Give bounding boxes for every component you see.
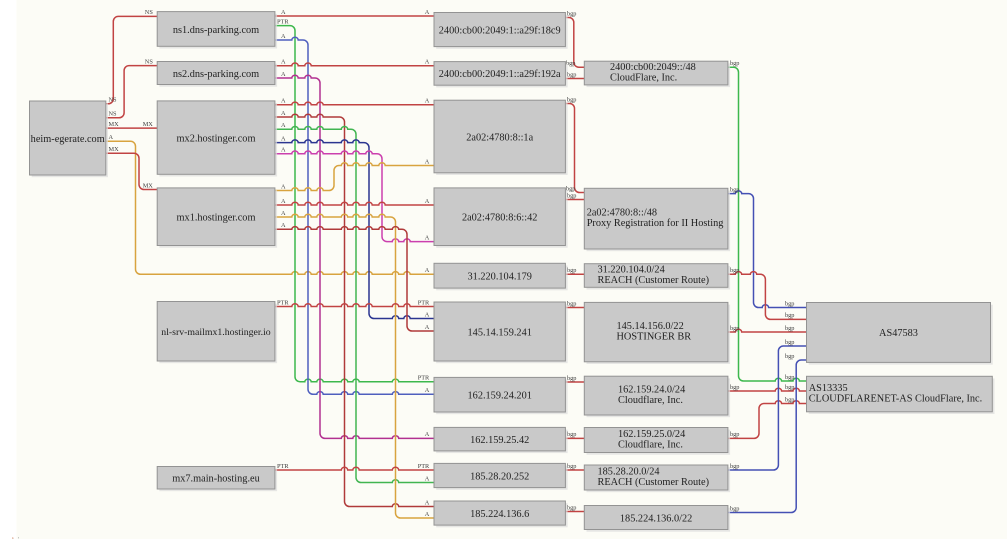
svg-text:A: A [281,71,286,78]
node 162.159.25.42 [434,427,568,453]
svg-text:A: A [281,33,286,40]
wire A mx1.hostinger.com to 185.224.136.6 [275,210,434,518]
svg-text:CloudFlare, Inc.: CloudFlare, Inc. [610,73,677,84]
svg-text:2400:cb00:2049::/48: 2400:cb00:2049::/48 [610,62,696,73]
node AS13335 CLOUDFLARENET-AS CloudFlare, Inc. [807,376,995,414]
corner watermark fragment [0,536,27,544]
svg-text:MX: MX [143,182,154,189]
svg-text:185.224.136.0/22: 185.224.136.0/22 [620,513,692,524]
node 145.14.156.0/22 HOSTINGER BR [584,302,730,364]
svg-text:ns1.dns-parking.com: ns1.dns-parking.com [173,25,259,36]
svg-text:bgp: bgp [567,375,576,382]
svg-text:A: A [281,59,286,66]
wire bgp 2a02:4780:8:6::42 to 2a02:4780:8::/48 [565,192,584,199]
svg-text:bgp: bgp [785,384,794,391]
wire bgp 162.159.24.0/24 to AS13335 [728,384,807,391]
wire bgp 185.224.136.0/22 to AS47583 [728,353,807,513]
node 185.224.136.0/22 [584,506,730,532]
wire PTR nl-srv-mailmx1.hostinger.io to 145.14.159.241 [275,299,434,306]
wire A ns1.dns-parking.com to 162.159.24.201 [275,33,434,395]
svg-text:A: A [425,511,430,518]
svg-text:bgp: bgp [567,431,576,438]
svg-text:bgp: bgp [730,505,739,512]
wire bgp 145.14.156.0/22 to AS47583 [728,325,807,332]
svg-text:NS: NS [145,9,154,16]
svg-text:162.159.25.0/24: 162.159.25.0/24 [618,429,685,440]
svg-text:bgp: bgp [730,384,739,391]
wire bgp 162.159.24.201 to 162.159.24.0/24 [565,375,584,382]
svg-text:bgp: bgp [785,396,794,403]
svg-text:A: A [109,134,114,141]
wire MX heim-egerate.com to mx2.hostinger.com [106,121,157,128]
svg-text:bgp: bgp [785,325,794,332]
svg-text:bgp: bgp [730,60,739,67]
svg-text:MX: MX [109,146,120,153]
svg-text:AS47583: AS47583 [879,328,918,339]
svg-text:REACH (Customer Route): REACH (Customer Route) [598,275,710,286]
svg-text:bgp: bgp [730,463,739,470]
wire PTR mx7.main-hosting.eu to 185.28.20.252 [275,463,434,470]
svg-text:bgp: bgp [785,312,794,319]
svg-text:162.159.25.42: 162.159.25.42 [470,435,529,446]
svg-text:NS: NS [145,58,154,65]
svg-text:185.224.136.6: 185.224.136.6 [470,509,529,520]
wire A mx2.hostinger.com to 2a02:4780:8:6::42 [275,147,434,242]
svg-text:bgp: bgp [567,300,576,307]
svg-text:A: A [281,183,286,190]
wire bgp 145.14.159.241 to 145.14.156.0/22 [565,300,584,307]
svg-text:bgp: bgp [730,325,739,332]
svg-text:145.14.159.241: 145.14.159.241 [468,327,532,338]
svg-text:bgp: bgp [567,96,576,103]
svg-text:mx7.main-hosting.eu: mx7.main-hosting.eu [172,474,260,485]
wire bgp 162.159.25.0/24 to AS13335 [728,396,807,438]
wire NS heim-egerate.com to ns1.dns-parking.com [106,9,157,104]
svg-text:REACH (Customer Route): REACH (Customer Route) [598,477,710,488]
svg-text:bgp: bgp [730,431,739,438]
node 2a02:4780:8::/48 Proxy Registration for II Hosting [584,188,730,251]
svg-text:Cloudflare, Inc.: Cloudflare, Inc. [618,440,683,451]
svg-text:bgp: bgp [730,267,739,274]
svg-text:185.28.20.252: 185.28.20.252 [470,471,529,482]
svg-text:162.159.24.201: 162.159.24.201 [468,391,532,402]
svg-text:PTR: PTR [418,463,430,470]
svg-text:PTR: PTR [277,299,289,306]
wire bgp 2a02:4780:8::/48 to AS47583 [728,186,807,307]
wire A mx2.hostinger.com to 185.224.136.6 [275,110,434,507]
node 185.224.136.6 [434,501,568,527]
svg-text:NS: NS [109,97,118,104]
node heim-egerate.com [30,101,109,177]
svg-text:A: A [425,431,430,438]
svg-text:bgp: bgp [567,10,576,17]
wire A mx2.hostinger.com to 2a02:4780:8::1a [275,98,434,105]
node nl-srv-mailmx1.hostinger.io [157,302,277,364]
svg-text:bgp: bgp [567,504,576,511]
node 2400:cb00:2049:1::a29f:18c9 [434,13,568,49]
node 145.14.159.241 [434,302,568,363]
svg-text:2a02:4780:8:6::42: 2a02:4780:8:6::42 [462,213,538,224]
svg-text:manlaico: manlaico [0,536,27,540]
svg-text:nl-srv-mailmx1.hostinger.io: nl-srv-mailmx1.hostinger.io [161,327,270,338]
wire A heim-egerate.com to 31.220.104.179 [106,134,434,274]
wire A ns1.dns-parking.com to 2400:cb00:2049:1::a29f:18c9 [275,9,434,16]
node 162.159.24.201 [434,377,568,414]
svg-text:bgp: bgp [785,300,794,307]
svg-text:PTR: PTR [418,375,430,382]
wire bgp 2400:cb00:2049:1::a29f:18c9 to 2400:cb00:2049::/48 [565,10,584,67]
svg-text:MX: MX [143,121,154,128]
node mx2.hostinger.com [157,101,277,177]
svg-text:A: A [425,234,430,241]
svg-text:2a02:4780:8::1a: 2a02:4780:8::1a [466,132,533,143]
node 162.159.24.0/24 Cloudflare, Inc. [584,376,730,417]
svg-text:A: A [425,324,430,331]
svg-text:bgp: bgp [785,339,794,346]
svg-text:A: A [281,210,286,217]
svg-text:145.14.156.0/22: 145.14.156.0/22 [617,321,684,332]
wire bgp 2a02:4780:8::1a to 2a02:4780:8::/48 [565,96,584,192]
svg-text:A: A [281,198,286,205]
svg-text:MX: MX [109,121,120,128]
wire bgp 185.28.20.0/24 to AS47583 [728,339,807,470]
svg-text:mx1.hostinger.com: mx1.hostinger.com [177,213,256,224]
node 162.159.25.0/24 Cloudflare, Inc. [584,428,730,455]
svg-text:A: A [425,311,430,318]
wire bgp 31.220.104.179 to 31.220.104.0/24 [565,267,584,274]
node 185.28.20.252 [434,463,568,489]
wire MX heim-egerate.com to mx1.hostinger.com [106,146,157,190]
svg-text:2a02:4780:8::/48: 2a02:4780:8::/48 [587,208,657,219]
svg-text:162.159.24.0/24: 162.159.24.0/24 [618,385,685,396]
svg-text:A: A [281,222,286,229]
svg-text:NS: NS [109,111,118,118]
svg-text:A: A [425,98,430,105]
svg-text:bgp: bgp [785,353,794,360]
wire bgp 2400:cb00:2049:1::a29f:192a to 2400:cb00:2049::/48 [565,71,584,78]
wire A mx2.hostinger.com to 145.14.159.241 [275,135,434,318]
svg-text:A: A [281,110,286,117]
node 31.220.104.179 [434,263,568,290]
svg-text:31.220.104.179: 31.220.104.179 [468,272,532,283]
svg-text:PTR: PTR [418,299,430,306]
svg-text:bgp: bgp [567,463,576,470]
wire A mx2.hostinger.com to 185.28.20.252 [275,122,434,483]
svg-text:A: A [425,475,430,482]
svg-text:A: A [425,387,430,394]
svg-text:bgp: bgp [567,267,576,274]
svg-text:A: A [425,9,430,16]
wire bgp 162.159.25.42 to 162.159.25.0/24 [565,431,584,438]
wire A mx1.hostinger.com to 2a02:4780:8:6::42 [275,198,434,205]
wire A mx1.hostinger.com to 145.14.159.241 [275,222,434,331]
svg-text:31.220.104.0/24: 31.220.104.0/24 [598,265,665,276]
node AS47583 [807,303,993,365]
svg-text:CLOUDFLARENET-AS CloudFlare, I: CLOUDFLARENET-AS CloudFlare, Inc. [809,394,983,405]
node 2a02:4780:8:6::42 [434,188,568,248]
svg-text:A: A [281,122,286,129]
wire PTR ns1.dns-parking.com to 162.159.24.201 [275,18,434,381]
wire bgp 2400:cb00:2049::/48 to AS13335 [728,60,807,381]
wire bgp 185.224.136.6 to 185.224.136.0/22 [565,504,584,511]
svg-text:HOSTINGER BR: HOSTINGER BR [617,332,692,343]
svg-text:ns2.dns-parking.com: ns2.dns-parking.com [173,69,259,80]
svg-text:A: A [425,267,430,274]
svg-text:185.28.20.0/24: 185.28.20.0/24 [598,467,660,478]
svg-text:Cloudflare, Inc.: Cloudflare, Inc. [618,395,683,406]
svg-text:bgp: bgp [567,71,576,78]
svg-text:A: A [425,499,430,506]
node ns2.dns-parking.com [157,62,277,87]
wire A ns2.dns-parking.com to 2400:cb00:2049:1::a29f:192a [275,59,434,66]
wire A mx1.hostinger.com to 2a02:4780:8::1a [275,158,434,190]
svg-text:bgp: bgp [730,186,739,193]
svg-text:A: A [281,135,286,142]
svg-text:AS13335: AS13335 [809,383,848,394]
node 185.28.20.0/24 REACH (Customer Route) [584,465,730,492]
node 2400:cb00:2049::/48 CloudFlare, Inc. [584,61,730,87]
wire bgp 31.220.104.0/24 to AS47583 [728,267,807,319]
svg-text:PTR: PTR [277,463,289,470]
wire bgp 185.28.20.252 to 185.28.20.0/24 [565,463,584,470]
svg-text:A: A [281,9,286,16]
svg-text:A: A [281,98,286,105]
node 2a02:4780:8::1a [434,100,568,175]
node 31.220.104.0/24 REACH (Customer Route) [584,264,730,290]
node 2400:cb00:2049:1::a29f:192a [434,62,568,88]
node mx7.main-hosting.eu [157,467,277,492]
svg-text:A: A [425,198,430,205]
svg-text:PTR: PTR [277,18,289,25]
node ns1.dns-parking.com [157,12,277,49]
node mx1.hostinger.com [157,188,277,248]
svg-text:2400:cb00:2049:1::a29f:18c9: 2400:cb00:2049:1::a29f:18c9 [439,25,561,36]
wire NS heim-egerate.com to ns2.dns-parking.com [106,58,157,117]
svg-text:mx2.hostinger.com: mx2.hostinger.com [177,133,256,144]
svg-text:bgp: bgp [785,374,794,381]
wire A ns2.dns-parking.com to 162.159.25.42 [275,71,434,439]
svg-text:2400:cb00:2049:1::a29f:192a: 2400:cb00:2049:1::a29f:192a [439,69,561,80]
svg-text:A: A [281,147,286,154]
svg-text:A: A [425,158,430,165]
svg-text:A: A [425,59,430,66]
svg-text:bgp: bgp [567,192,576,199]
svg-text:heim-egerate.com: heim-egerate.com [31,134,105,145]
svg-text:Proxy Registration for II Host: Proxy Registration for II Hosting [587,218,724,229]
